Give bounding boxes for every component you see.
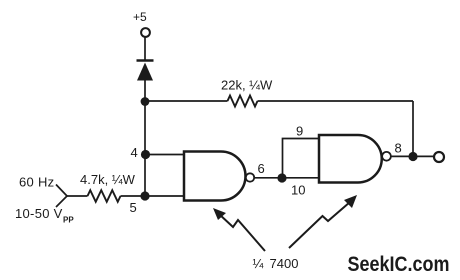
junction pin 5 <box>140 191 149 200</box>
svg-text:6: 6 <box>258 161 265 176</box>
wire pin 4 <box>145 154 184 156</box>
svg-text:8: 8 <box>395 141 402 156</box>
junction node 8 <box>408 152 417 161</box>
svg-text:+5: +5 <box>133 10 147 24</box>
wire gate1 output to junction <box>254 177 283 179</box>
input source chevron <box>56 185 67 208</box>
output bubble U1b <box>382 152 391 161</box>
wire pin 10 <box>282 177 320 179</box>
svg-text:PP: PP <box>63 216 74 225</box>
svg-text:10-50 V: 10-50 V <box>15 206 63 221</box>
junction node 6 <box>277 173 286 182</box>
wire from +5 terminal to diode <box>144 38 146 61</box>
wire from diode down to pin 5 <box>144 80 146 196</box>
wire feedback right side down <box>412 101 414 157</box>
output terminal <box>434 152 444 162</box>
svg-text:SeekIC.com: SeekIC.com <box>348 253 450 276</box>
svg-text:7400: 7400 <box>270 256 299 271</box>
callout arrow to gate U1a <box>213 208 265 251</box>
diode D1 <box>137 61 154 81</box>
svg-text:4: 4 <box>131 145 138 160</box>
NAND gate U1a <box>184 152 245 201</box>
wire pin 9 riser <box>283 139 321 179</box>
svg-text:4.7k, ¼W: 4.7k, ¼W <box>80 172 136 187</box>
resistor R2 4.7k <box>67 190 184 202</box>
NAND gate U1b <box>319 135 382 183</box>
svg-text:9: 9 <box>296 124 303 139</box>
svg-text:60 Hz: 60 Hz <box>19 175 54 190</box>
+5 supply terminal <box>141 28 150 37</box>
svg-text:22k, ¼W: 22k, ¼W <box>221 78 273 93</box>
junction below diode <box>141 97 150 106</box>
svg-text:5: 5 <box>130 200 137 215</box>
output bubble U1a <box>246 173 254 181</box>
wire gate2 output <box>391 155 435 157</box>
svg-text:¼: ¼ <box>253 256 264 271</box>
junction pin 4 <box>141 150 150 159</box>
svg-text:10: 10 <box>291 183 305 198</box>
callout arrow to gate U1b <box>289 195 357 248</box>
resistor R1 22k <box>145 96 413 107</box>
